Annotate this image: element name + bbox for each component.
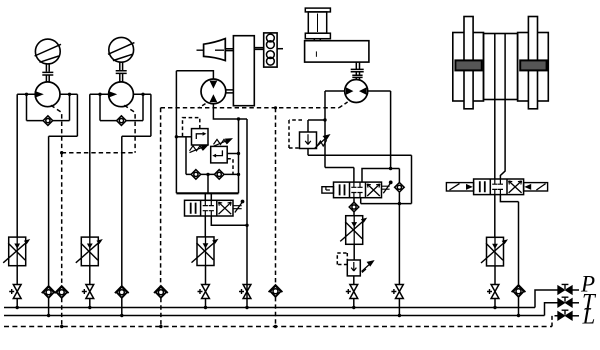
pilot line RV2 (dashed)	[227, 159, 233, 175]
wire drain down to QC2 (dashed)	[61, 153, 63, 287]
check valve CV4	[214, 170, 224, 180]
bottom manifold line P (solid)	[4, 307, 535, 309]
node QC1-T junction	[47, 314, 50, 317]
node M2 right inner junction	[141, 93, 144, 96]
wire RV2 outlet	[227, 153, 238, 155]
bottom manifold leak line L (dashed)	[4, 326, 552, 328]
wire QC2 to L line (dashed)	[61, 298, 63, 327]
wire M1 check-valve loop	[27, 94, 70, 120]
wire block left jumper	[185, 137, 187, 175]
node SV4-P junction	[245, 306, 248, 309]
wire DV3 port B elbow	[500, 195, 518, 286]
node M1 left inner junction	[25, 93, 28, 96]
brake piston bar right	[520, 60, 546, 70]
arrow RV2 adjust	[214, 139, 232, 146]
wire P line riser	[535, 290, 558, 308]
wire M3 bottom port	[213, 104, 247, 119]
quick coupling QC5	[269, 285, 283, 297]
wire cylinder ports inside block	[495, 34, 505, 100]
wire M4 right port	[368, 91, 391, 169]
wire QC5 to L line (dashed)	[275, 297, 277, 327]
wire L stub	[572, 315, 579, 317]
quick coupling QC3	[115, 286, 129, 298]
flow control valve FC5	[481, 237, 508, 266]
node check-line tap	[237, 173, 240, 176]
wire SV1 to P line	[16, 299, 18, 308]
quick coupling QC1	[42, 286, 56, 298]
wire valve header bar	[176, 192, 238, 194]
wire P stub	[572, 289, 579, 291]
pressure gauge G2	[108, 37, 134, 62]
node SV7-P junction	[493, 306, 496, 309]
check valve CV2	[117, 116, 127, 126]
arrow RV1 adjust	[190, 145, 208, 152]
cylinder block center	[484, 34, 518, 100]
node square2 tap	[237, 152, 240, 155]
node drain right tap	[274, 106, 277, 109]
wire M1 right port	[60, 93, 77, 95]
wire DV2 port A down	[353, 198, 355, 203]
relief valve RV5	[347, 260, 373, 276]
winch drum	[305, 8, 330, 41]
wire M2 left port	[90, 94, 109, 237]
node relief RV3 tap	[323, 118, 326, 121]
flow control valve FC4	[340, 216, 367, 245]
node check outlet	[206, 173, 209, 176]
bottom manifold line T (solid)	[4, 315, 545, 317]
node M1 right inner junction	[68, 93, 71, 96]
shut-off valve SV3	[198, 285, 210, 299]
wire brake line A	[494, 100, 496, 180]
wire M3 top port to left riser	[176, 71, 213, 194]
wire DV1 T-loop	[211, 216, 247, 225]
shaft gearbox to coupling	[254, 48, 263, 50]
wire SV2 to P line	[89, 299, 91, 308]
directional valve DV3	[474, 179, 524, 195]
spring RV2	[214, 139, 228, 144]
wire QC6 to T line	[518, 297, 520, 316]
wire CV6 to FC4	[353, 212, 355, 216]
hydraulic motor M3	[201, 79, 226, 104]
node SV5-T junction	[398, 314, 401, 317]
shut-off valve SV2	[82, 285, 94, 299]
svg-text:L: L	[582, 304, 596, 329]
wire SV3 to P line	[205, 299, 207, 308]
quick coupling QC6	[512, 285, 526, 297]
relief valve RV2	[211, 146, 228, 163]
wire FC5 to SV7	[494, 266, 496, 285]
wire T stub	[572, 302, 579, 304]
node T-loop junction	[245, 224, 248, 227]
spring RV1	[190, 146, 204, 151]
check valve CV3	[191, 170, 201, 180]
quick coupling QC2	[55, 286, 69, 298]
wire M4 right to DV2 port B	[362, 169, 399, 183]
wire QC4 to L line (dashed)	[160, 298, 162, 327]
node bottom-port branch	[237, 117, 240, 120]
wire M1 case drain (dashed)	[51, 105, 62, 153]
node relief feed tap	[175, 135, 178, 138]
node SV3-P junction	[204, 306, 207, 309]
shaft GB2 to motor M4	[351, 62, 364, 80]
wire DV1 to FC3	[204, 216, 206, 237]
shut-off valve L	[558, 310, 572, 320]
shut-off valve P	[558, 284, 572, 294]
node QC5-L junction	[274, 325, 277, 328]
gauge G1 stem and flange	[42, 64, 53, 82]
node M2 left inner junction	[98, 93, 101, 96]
pilot box DV2 left	[322, 187, 334, 193]
wire check CV5 branch	[398, 169, 400, 204]
directional valve DV2	[334, 182, 382, 198]
wire drain left drop (dashed)	[160, 108, 162, 287]
wire M2 right line step-down	[122, 94, 151, 286]
wire RV3 outlet loop	[308, 155, 412, 203]
gearbox GB2	[305, 41, 369, 62]
pilot box RV5 (dashed)	[337, 253, 347, 265]
check valve CV1	[43, 116, 53, 126]
pilot RV3 (dashed)	[289, 120, 302, 148]
wire M4 case drain (dashed)	[339, 102, 348, 108]
wire return drop to SV5	[398, 204, 400, 285]
solenoid DV3 right	[524, 183, 548, 191]
wire check line	[186, 173, 239, 175]
relief valve RV1	[192, 129, 209, 145]
node QC4-L junction	[159, 325, 162, 328]
wire RV5 to SV6	[353, 276, 355, 285]
brake piston bar left	[455, 60, 481, 70]
wire M4 left to DV2 port A	[325, 168, 354, 183]
wire M1 right line step-down	[49, 94, 78, 286]
shut-off valve SV5	[391, 285, 403, 299]
node drain junction M1	[60, 151, 63, 154]
flow control valve FC3	[192, 237, 219, 266]
node M4 right junction	[389, 167, 392, 170]
wire SV6 to P line	[353, 299, 355, 308]
wire FC4 to RV5	[353, 244, 355, 260]
check valve CV6	[349, 202, 359, 212]
wire FC1 to shut-off	[16, 266, 18, 285]
shut-off valve SV7	[487, 285, 499, 299]
directional valve DV1	[185, 200, 234, 216]
wire M4 left port	[325, 91, 345, 168]
relief valve RV3	[300, 120, 330, 155]
wire M2 check-valve loop	[100, 94, 143, 120]
wire brake line B	[500, 100, 505, 180]
brake disc left	[464, 17, 473, 109]
lever DV2	[382, 181, 393, 194]
wire DV3 port A to FC5	[494, 195, 496, 239]
pressure gauge G1	[35, 39, 61, 64]
coupling K1	[264, 33, 283, 67]
wire M2 right port	[133, 93, 151, 95]
wire RV1 inlet	[176, 136, 191, 138]
hydraulic motor M1	[35, 82, 60, 107]
check valve CV5	[395, 183, 405, 193]
wire L line riser (dashed)	[552, 316, 558, 327]
wire drain collector (dashed)	[62, 152, 135, 154]
wire T line riser	[545, 303, 559, 316]
wire M1 left port	[17, 94, 35, 237]
wire FC2 to shut-off	[89, 266, 91, 285]
wire check outlet	[207, 174, 209, 193]
node SV1-P junction	[16, 306, 19, 309]
brake caliper right	[518, 33, 549, 102]
flow control valve FC1	[3, 237, 30, 266]
hydraulic motor M4	[345, 80, 368, 103]
gearbox GB1	[233, 36, 254, 106]
node SV6-P junction	[352, 306, 355, 309]
shut-off valve SV1	[9, 285, 21, 299]
shut-off valve T	[558, 297, 572, 307]
hydraulic motor M2	[108, 82, 133, 107]
wire QC1 to T line	[48, 298, 50, 316]
fan impeller	[197, 39, 226, 61]
node QC3-T junction	[120, 314, 123, 317]
wire SV5 to T line	[398, 299, 400, 316]
node QC2-L junction	[60, 325, 63, 328]
shaft M3 to gearbox	[226, 90, 234, 93]
node SV2-P junction	[88, 306, 91, 309]
lever DV1	[233, 200, 244, 213]
wire drain right drop (dashed)	[275, 108, 277, 286]
brake disc right	[528, 17, 537, 109]
shut-off valve SV6	[346, 285, 358, 299]
quick coupling QC4	[154, 286, 168, 298]
wire return riser to SV4	[246, 119, 248, 284]
shaft fan to gearbox	[225, 49, 233, 51]
wire M3 case drain (dashed)	[199, 104, 206, 108]
wire SV4 top	[246, 284, 248, 307]
wire FC3 to SV3	[205, 266, 207, 285]
node QC6-T junction	[517, 314, 520, 317]
wire SV7 to P line	[494, 299, 496, 308]
wire DV1 top ports	[205, 193, 211, 200]
node RV3 outlet junction	[398, 202, 401, 205]
wire M2 case drain (dashed)	[124, 105, 135, 153]
wire QC3 to T line	[121, 298, 123, 316]
brake caliper left	[453, 33, 484, 102]
wire block right riser	[238, 119, 240, 193]
pilot line RV1 (dashed)	[183, 118, 200, 137]
shut-off valve SV4	[239, 285, 251, 299]
flow control valve FC2	[76, 237, 103, 266]
drain header (dashed)	[161, 107, 339, 109]
gauge G2 stem and flange	[116, 62, 127, 82]
solenoid DV3 left	[446, 183, 473, 191]
